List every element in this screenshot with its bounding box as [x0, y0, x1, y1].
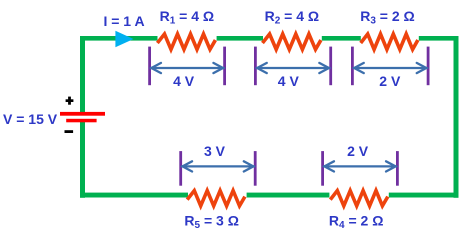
wire right vertical — [454, 36, 459, 198]
svg-text:R5 = 3 Ω: R5 = 3 Ω — [184, 213, 239, 232]
wire top segment (R3 to right corner) — [419, 36, 459, 41]
svg-text:I = 1 A: I = 1 A — [103, 13, 144, 29]
svg-text:2 V: 2 V — [347, 143, 369, 159]
voltage marker bar left of R2 — [254, 47, 257, 86]
voltage marker bar left of R5 — [179, 151, 182, 186]
current arrow — [115, 31, 133, 48]
voltage arrow V(R5) — [182, 161, 254, 171]
voltage marker bar left of R4 — [321, 151, 324, 186]
svg-text:4 V: 4 V — [278, 73, 300, 89]
voltage marker bar right of R5 — [254, 151, 257, 186]
svg-text:R3 = 2 Ω: R3 = 2 Ω — [360, 8, 415, 27]
battery V1 positive plate — [60, 112, 105, 116]
svg-text:V = 15 V: V = 15 V — [3, 111, 58, 127]
voltage arrow V(R1) — [151, 63, 224, 73]
svg-text:2 V: 2 V — [379, 73, 401, 89]
resistor R2 — [264, 34, 320, 49]
svg-text:3 V: 3 V — [204, 143, 226, 159]
wire left vertical lower (from battery - plate) — [80, 122, 85, 198]
voltage arrow V(R2) — [257, 63, 330, 73]
resistor R1 — [159, 34, 215, 49]
battery V1 negative plate — [66, 119, 96, 123]
voltage arrow V(R4) — [324, 161, 396, 171]
svg-text:4 V: 4 V — [173, 73, 195, 89]
voltage marker bar right of R3 — [427, 47, 430, 86]
battery minus sign — [65, 130, 74, 133]
svg-text:R4 = 2 Ω: R4 = 2 Ω — [329, 213, 384, 232]
resistor R4 — [331, 191, 387, 206]
battery plus sign — [66, 97, 74, 105]
svg-text:R2 = 4 Ω: R2 = 4 Ω — [265, 8, 320, 27]
voltage marker bar right of R2 — [329, 47, 332, 86]
wire top segment (R2 to R3) — [322, 36, 361, 41]
voltage marker bar left of R3 — [351, 47, 354, 86]
wire bottom segment (R4 to right corner) — [389, 193, 459, 198]
voltage arrow V(R3) — [354, 63, 427, 73]
wire bottom segment (R5 to R4) — [247, 193, 330, 198]
resistor R3 — [362, 34, 417, 49]
wire left vertical upper (to battery + plate) — [80, 36, 85, 112]
svg-text:R1 = 4 Ω: R1 = 4 Ω — [160, 8, 215, 27]
wire top segment (R1 to R2) — [217, 36, 263, 41]
wire top segment (battery to R1) — [80, 36, 158, 41]
voltage marker bar right of R1 — [223, 47, 226, 86]
resistor R5 — [188, 191, 244, 206]
wire bottom segment (left corner to R5) — [80, 193, 188, 198]
voltage marker bar left of R1 — [148, 47, 151, 86]
voltage marker bar right of R4 — [396, 151, 399, 186]
